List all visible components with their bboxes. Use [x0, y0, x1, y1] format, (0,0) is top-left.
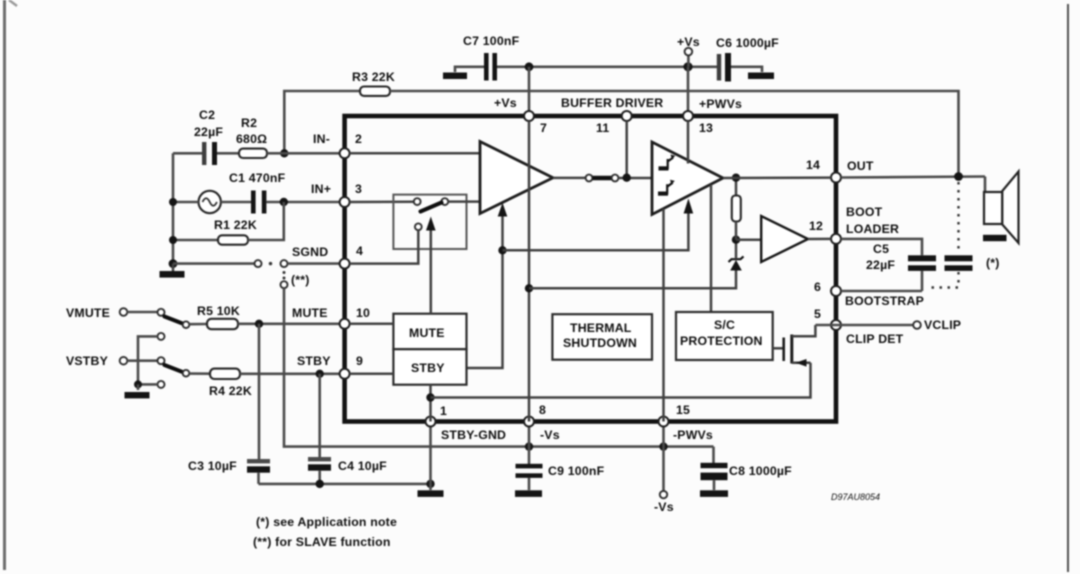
node R3/IN- junction [280, 149, 288, 157]
wire boot driver to pin12 [808, 238, 831, 241]
svg-text:THERMAL: THERMAL [570, 321, 632, 335]
svg-text:10: 10 [356, 306, 370, 320]
svg-text:C7 100nF: C7 100nF [463, 34, 520, 48]
resistor R1 22K [169, 202, 284, 245]
svg-text:+Vs: +Vs [494, 96, 517, 110]
wire SGND slave drop to -Vs rail [284, 288, 714, 446]
wire pin3 to mute switch [350, 201, 414, 204]
junction node +Vs/pin13 [683, 62, 692, 71]
wire pin9 to STBY block [350, 373, 394, 376]
switch SW-STBY [158, 357, 190, 376]
ground switches [125, 384, 150, 398]
svg-text:R2: R2 [241, 116, 257, 130]
wire pin13 drop to buffer [687, 121, 690, 164]
pin numbers top [540, 121, 713, 135]
wire node to boot driver [736, 238, 761, 241]
svg-text:IN-: IN- [313, 132, 330, 146]
resistor internal bootstrap [732, 181, 741, 240]
svg-text:(**): (**) [291, 273, 310, 287]
switch SW-STBY lower contact to ground [134, 380, 165, 388]
svg-text:C3 10µF: C3 10µF [188, 459, 237, 473]
svg-text:5: 5 [814, 307, 821, 321]
wire supply vertical pin7-pin8 [528, 121, 531, 422]
svg-text:C4 10µF: C4 10µF [338, 459, 387, 473]
node pin8 / -Vs rail [525, 442, 533, 450]
svg-text:R1 22K: R1 22K [214, 218, 257, 232]
svg-text:(**) for SLAVE function: (**) for SLAVE function [253, 535, 391, 549]
svg-text:4: 4 [356, 244, 363, 258]
svg-text:2: 2 [355, 132, 362, 146]
svg-text:VSTBY: VSTBY [66, 354, 108, 368]
wire OUT to speaker [841, 177, 985, 178]
wire pin10 to MUTE block [350, 323, 394, 326]
wire buffer control branch [503, 212, 689, 250]
svg-text:12: 12 [809, 219, 823, 233]
pin 10 MUTE [340, 319, 350, 329]
wire input ground bus [172, 153, 175, 265]
svg-text:OUT: OUT [847, 159, 874, 173]
svg-text:MUTE: MUTE [292, 306, 328, 320]
svg-text:14: 14 [806, 158, 820, 172]
capacitor C3 10uF [188, 324, 270, 484]
capacitor C7 100nF [443, 34, 520, 81]
svg-text:VMUTE: VMUTE [66, 306, 110, 320]
dashed wire OUT to optional cap [957, 182, 959, 252]
MOSFET clip detector Q1 gate wire [773, 347, 783, 350]
arrow mute control into switch [426, 217, 436, 231]
svg-text:1: 1 [440, 404, 447, 418]
terminal +Vs [677, 35, 700, 67]
svg-text:CLIP DET: CLIP DET [846, 332, 904, 346]
dashed wire optional cap to bootstrap [926, 272, 959, 288]
wire buffer to S/C protection [710, 185, 713, 313]
svg-text:D97AU8054: D97AU8054 [831, 492, 880, 502]
wire op-amp output to link [553, 177, 586, 180]
svg-text:9: 9 [356, 354, 363, 368]
mute switch box [393, 195, 466, 249]
capacitor C1 470nF [221, 171, 344, 214]
svg-text:SHUTDOWN: SHUTDOWN [563, 336, 637, 350]
optional capacitor (*) [945, 255, 1000, 271]
svg-text:-Vs: -Vs [540, 428, 560, 442]
capacitor C4 10uF [308, 374, 387, 484]
svg-text:22µF: 22µF [194, 125, 223, 139]
pin 2 IN- [340, 148, 350, 158]
pin labels bottom [441, 428, 713, 442]
pin numbers bottom [440, 403, 690, 418]
wire pin2 to op-amp inverting input [350, 152, 480, 155]
wire switch to op-amp non-inverting input [448, 200, 480, 203]
svg-text:BOOT: BOOT [846, 205, 883, 219]
svg-text:SGND: SGND [292, 245, 328, 259]
svg-text:6: 6 [814, 280, 821, 294]
terminal VMUTE [66, 306, 157, 320]
wire pin6 to C5 [841, 290, 922, 293]
node resistor/zener/boot driver [732, 236, 740, 244]
pin 7 +Vs [524, 111, 534, 121]
svg-text:C9 100nF: C9 100nF [548, 464, 605, 478]
svg-text:+Vs: +Vs [677, 35, 700, 49]
resistor R3 22K feedback [284, 70, 958, 177]
mute switch contacts [414, 198, 448, 230]
capacitor C9 100nF [515, 422, 605, 497]
svg-text:3: 3 [355, 182, 362, 196]
wire buffer to pin15 -PWVs internal [662, 209, 665, 422]
page frame left border [3, 0, 6, 570]
pin labels top [494, 96, 742, 111]
wire zener rail [529, 271, 736, 289]
node stby/pin1/protection rail [426, 393, 434, 401]
svg-text:+PWVs: +PWVs [699, 97, 742, 111]
pin 5 CLIP DET [831, 320, 841, 330]
pin 1 STBY-GND [426, 417, 436, 427]
switch SW-MUTE lower contact to ground [138, 333, 165, 385]
MOSFET channel bar [790, 335, 793, 364]
svg-text:S/C: S/C [714, 318, 735, 332]
wire pin12 to C5 [841, 239, 922, 255]
svg-text:R5 10K: R5 10K [197, 304, 240, 318]
svg-text:R4 22K: R4 22K [209, 384, 252, 398]
page frame corner mark [9, 0, 17, 6]
S/C PROTECTION block [676, 312, 773, 360]
MUTE block [393, 314, 466, 350]
mute switch blade [421, 203, 442, 212]
svg-text:C5: C5 [873, 242, 889, 256]
node OUT/feedback [954, 172, 963, 181]
wire stby control rail [467, 214, 503, 368]
wire pin11 drop [625, 121, 628, 178]
wire SGND row [173, 262, 255, 265]
IC box TDA7293 [345, 116, 836, 422]
svg-text:STBY: STBY [411, 361, 445, 375]
svg-text:C1 470nF: C1 470nF [229, 171, 286, 185]
svg-text:BUFFER DRIVER: BUFFER DRIVER [561, 96, 663, 110]
node pin1/ground line [426, 480, 434, 488]
buffer internal glyph 2 [658, 180, 675, 196]
svg-text:BOOTSTRAP: BOOTSTRAP [845, 294, 924, 308]
svg-text:C2: C2 [199, 108, 215, 122]
THERMAL SHUTDOWN block [552, 314, 652, 360]
wire pin5 to VCLIP [815, 324, 913, 327]
zener diode DZ [729, 244, 744, 271]
wire pin1 drop [429, 422, 432, 484]
svg-text:R3 22K: R3 22K [352, 70, 395, 84]
buffer driver stage U2 [652, 142, 723, 215]
node C4/ground line [316, 480, 324, 488]
boot loader driver U3 [761, 216, 808, 262]
pin 12 BOOT LOADER [831, 234, 841, 244]
pin 14 OUT [831, 173, 841, 183]
pin 13 +PWVs [683, 111, 693, 121]
pin 4 SGND [340, 259, 350, 269]
wire STBY block to pin1 [429, 385, 432, 422]
wire ground line C3 C4 pin1 [259, 483, 431, 486]
capacitor C6 1000uF [716, 36, 779, 82]
svg-text:IN+: IN+ [311, 182, 331, 196]
speaker LS [983, 172, 1019, 244]
pin 3 IN+ [340, 197, 350, 207]
node zener rail on supply vertical [525, 284, 533, 292]
pin labels right [806, 158, 924, 346]
pin 9 STBY [340, 369, 350, 379]
arrow into op-amp U1 [498, 203, 508, 217]
pin 6 BOOTSTRAP [831, 286, 841, 296]
wire link to buffer [618, 177, 652, 180]
svg-text:680Ω: 680Ω [236, 132, 267, 146]
node C1/R1 junction [280, 198, 288, 206]
svg-text:13: 13 [699, 121, 713, 135]
resistor R4 22K [189, 369, 344, 398]
node R5/C3 junction [255, 320, 263, 328]
terminal VCLIP [913, 318, 961, 332]
svg-text:STBY: STBY [297, 354, 331, 368]
svg-text:7: 7 [540, 121, 547, 135]
svg-text:MUTE: MUTE [409, 326, 445, 340]
op-amp U1 input polarity marks [486, 149, 492, 209]
capacitor C2 22uF [173, 108, 239, 165]
svg-text:8: 8 [539, 403, 546, 417]
wire buffer output to pin14 [723, 176, 831, 179]
wire pin4 to switch lower contact [350, 230, 419, 263]
terminal -Vs [654, 422, 674, 515]
wire protection ground rail to mosfet source [431, 363, 811, 398]
svg-text:(*): (*) [986, 256, 1000, 270]
pin 11 BUFFER DRIVER [622, 111, 632, 121]
node pin15 / -Vs rail [659, 442, 667, 450]
MOSFET gate bar [782, 338, 785, 362]
MOSFET source wire [792, 362, 811, 365]
svg-text:22µF: 22µF [866, 258, 895, 272]
MOSFET source arrow [796, 359, 807, 367]
svg-text:C6 1000µF: C6 1000µF [716, 36, 779, 50]
op-amp U1 [480, 142, 553, 214]
buffer internal glyph 1 [659, 155, 676, 171]
arrow into buffer U2 [684, 199, 694, 214]
MOSFET drain wire to pin5 [792, 325, 816, 336]
capacitor C8 1000uF [700, 447, 792, 497]
node R4/C4 junction [316, 370, 324, 378]
ground input network [160, 259, 185, 277]
junction node C7/pin7 [525, 62, 534, 71]
svg-text:15: 15 [676, 403, 690, 417]
wire pin13 riser [687, 67, 690, 116]
svg-text:STBY-GND: STBY-GND [441, 428, 506, 442]
switch SW-MUTE [158, 309, 190, 328]
pin 8 -Vs [524, 417, 534, 427]
pin 15 -PWVs [659, 417, 669, 427]
svg-text:-PWVs: -PWVs [673, 428, 713, 442]
pin labels left [292, 132, 331, 368]
jumper SGND (**) [255, 260, 345, 288]
svg-text:(*) see Application note: (*) see Application note [256, 515, 397, 529]
pin numbers left [355, 132, 370, 368]
STBY block [393, 349, 466, 385]
wire +Vs top rail C7 to C6 [497, 66, 717, 69]
signal source generator [169, 191, 221, 213]
resistor R2 680ohm [236, 116, 344, 158]
node pin11/output [623, 174, 631, 182]
svg-text:VCLIP: VCLIP [924, 318, 961, 332]
terminal VSTBY [66, 354, 157, 368]
resistor R5 10K [189, 304, 344, 329]
link on pin 11 path [586, 175, 619, 182]
capacitor C5 22uF [866, 242, 936, 291]
ground STBY-GND [418, 484, 444, 497]
svg-text:11: 11 [596, 121, 609, 135]
node stby control / buffer control [498, 246, 506, 254]
node buffer output [732, 174, 740, 182]
wire pin7 riser [528, 67, 531, 116]
svg-text:PROTECTION: PROTECTION [680, 334, 763, 348]
page frame right border [1067, 4, 1069, 572]
svg-text:C8 1000µF: C8 1000µF [729, 464, 792, 478]
svg-text:-Vs: -Vs [654, 500, 674, 514]
svg-text:LOADER: LOADER [846, 222, 899, 236]
wire mute control arrow stem [430, 228, 433, 314]
